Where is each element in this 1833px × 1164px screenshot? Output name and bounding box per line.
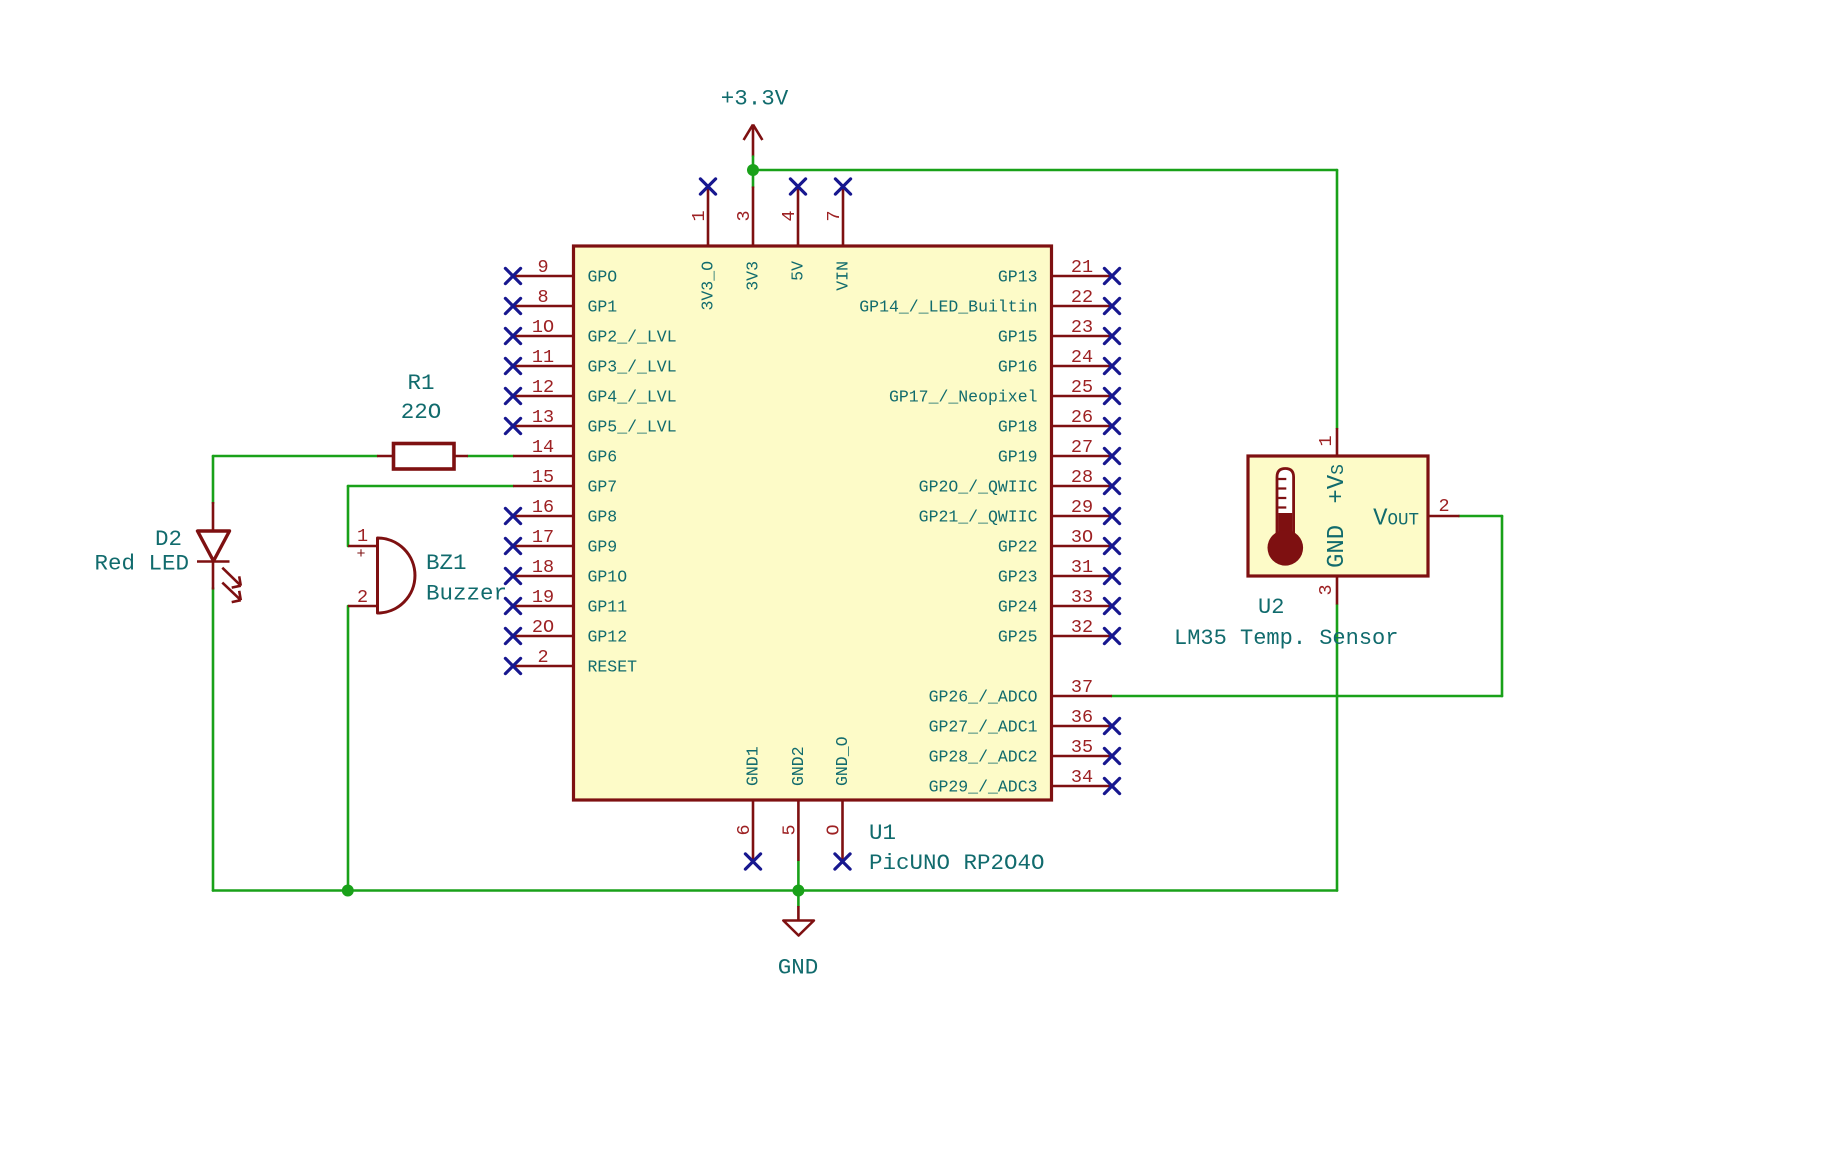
junction ground node: [792, 885, 804, 897]
svg-text:13: 13: [532, 407, 554, 428]
svg-text:GP29_/_ADC3: GP29_/_ADC3: [929, 778, 1038, 797]
svg-text:GP9: GP9: [588, 538, 618, 557]
svg-text:31: 31: [1071, 557, 1093, 578]
wire buzzer pin1 riser: [347, 486, 350, 546]
U1 pin 35 GP28_/_ADC2: [929, 737, 1120, 767]
U1 pin 3 3V3: [734, 187, 763, 291]
wire +3.3V horizontal to U2: [753, 169, 1337, 172]
svg-text:18: 18: [532, 557, 554, 578]
svg-text:8: 8: [537, 287, 548, 308]
svg-text:3V3_O: 3V3_O: [699, 261, 718, 311]
svg-text:1: 1: [1316, 435, 1337, 446]
svg-text:9: 9: [537, 257, 548, 278]
svg-text:5V: 5V: [789, 261, 808, 281]
svg-text:GP1O: GP1O: [588, 568, 628, 587]
U1 pin 2 RESET: [505, 647, 637, 677]
svg-text:25: 25: [1071, 377, 1093, 398]
svg-text:RESET: RESET: [588, 658, 638, 677]
svg-text:7: 7: [824, 210, 845, 221]
svg-text:GP11: GP11: [588, 598, 628, 617]
svg-text:PicUNO RP2O4O: PicUNO RP2O4O: [869, 850, 1045, 876]
wire GP7 horizontal: [348, 485, 513, 488]
svg-text:5: 5: [779, 824, 800, 835]
wire LED cathode to bottom bus: [212, 588, 215, 891]
svg-text:33: 33: [1071, 587, 1093, 608]
U1 pin 15 GP7: [513, 467, 617, 497]
U1 pin 10 GP2_/_LVL: [505, 317, 676, 347]
svg-text:GP2_/_LVL: GP2_/_LVL: [588, 328, 677, 347]
U1 pin 22 GP14_/_LED_Builtin: [859, 287, 1119, 317]
svg-text:11: 11: [532, 347, 554, 368]
U1 pin 33 GP24: [998, 587, 1120, 617]
wire GND2 stub: [797, 861, 800, 906]
svg-text:R1: R1: [407, 370, 434, 396]
svg-text:2: 2: [1438, 496, 1449, 517]
svg-text:3O: 3O: [1071, 527, 1093, 548]
svg-text:VIN: VIN: [834, 261, 853, 291]
U1 pin 13 GP5_/_LVL: [505, 407, 676, 437]
ground: [778, 906, 819, 981]
IC U2 LM35 Temp. Sensor body: [1248, 456, 1428, 576]
svg-text:15: 15: [532, 467, 554, 488]
U1 pin 36 GP27_/_ADC1: [929, 707, 1120, 737]
U1 pin 26 GP18: [998, 407, 1120, 437]
svg-text:GP18: GP18: [998, 418, 1038, 437]
svg-text:GP13: GP13: [998, 268, 1038, 287]
svg-text:23: 23: [1071, 317, 1093, 338]
svg-text:16: 16: [532, 497, 554, 518]
svg-text:GND1: GND1: [744, 746, 763, 786]
wire to U2 Vout: [1459, 515, 1502, 518]
svg-text:U2: U2: [1258, 595, 1284, 620]
svg-text:GPO: GPO: [588, 268, 618, 287]
svg-text:U1: U1: [869, 820, 896, 846]
power symbol +3.3V: [721, 86, 789, 157]
svg-text:GP21_/_QWIIC: GP21_/_QWIIC: [919, 508, 1038, 527]
svg-text:22O: 22O: [401, 399, 442, 425]
svg-text:GND: GND: [778, 955, 819, 981]
svg-text:14: 14: [532, 437, 554, 458]
U2 pin 1 +Vs: [1316, 428, 1351, 504]
U1 pin 28 GP20_/_QWIIC: [919, 467, 1120, 497]
U1 pin 9 GP0: [505, 257, 617, 287]
svg-text:GP12: GP12: [588, 628, 628, 647]
wire +3.3V stem to pin 3V3: [752, 157, 755, 188]
svg-text:6: 6: [734, 824, 755, 835]
U1 pin 12 GP4_/_LVL: [505, 377, 676, 407]
svg-text:GP22: GP22: [998, 538, 1038, 557]
svg-text:17: 17: [532, 527, 554, 548]
svg-text:GP19: GP19: [998, 448, 1038, 467]
svg-text:GP15: GP15: [998, 328, 1038, 347]
U1 reference and value labels: [869, 820, 1045, 876]
U1 pin 19 GP11: [505, 587, 627, 617]
U1 pin 23 GP15: [998, 317, 1120, 347]
wire R1 to LED column: [213, 455, 377, 458]
svg-text:GND_O: GND_O: [833, 736, 852, 786]
wire LED anode drop: [212, 456, 215, 503]
wire ADC vertical riser: [1501, 516, 1504, 696]
svg-text:+VS: +VS: [1324, 464, 1351, 504]
svg-text:3: 3: [734, 210, 755, 221]
svg-text:D2: D2: [155, 526, 182, 552]
svg-text:GP8: GP8: [588, 508, 618, 527]
svg-text:26: 26: [1071, 407, 1093, 428]
U1 pin 18 GP10: [505, 557, 627, 587]
U1 pin 17 GP9: [505, 527, 617, 557]
svg-text:GP27_/_ADC1: GP27_/_ADC1: [929, 718, 1038, 737]
IC U1 PicUNO RP2040 body: [574, 246, 1052, 800]
svg-text:GP2O_/_QWIIC: GP2O_/_QWIIC: [919, 478, 1038, 497]
junction +3.3V node: [747, 164, 759, 176]
svg-text:GP14_/_LED_Builtin: GP14_/_LED_Builtin: [859, 298, 1037, 317]
svg-text:BZ1: BZ1: [426, 550, 467, 576]
svg-text:Red LED: Red LED: [94, 551, 189, 577]
U1 pin 30 GP22: [998, 527, 1120, 557]
svg-text:GP24: GP24: [998, 598, 1038, 617]
U1 pin 0 GND_O: [824, 736, 853, 869]
svg-text:+3.3V: +3.3V: [721, 86, 789, 112]
svg-text:36: 36: [1071, 707, 1093, 728]
svg-text:GND: GND: [1324, 525, 1351, 568]
wire down to U2 +Vs pin: [1336, 170, 1339, 428]
svg-text:GP4_/_LVL: GP4_/_LVL: [588, 388, 677, 407]
U2 pin 2 Vout: [1373, 496, 1459, 533]
svg-text:Buzzer: Buzzer: [426, 581, 507, 607]
wire GP6 to R1: [468, 455, 513, 458]
wire buzzer pin2 drop: [347, 606, 350, 891]
U1 pin 24 GP16: [998, 347, 1120, 377]
svg-text:22: 22: [1071, 287, 1093, 308]
svg-text:1O: 1O: [532, 317, 554, 338]
U1 pin 11 GP3_/_LVL: [505, 347, 676, 377]
U2 reference and value labels: [1174, 595, 1398, 651]
svg-text:VOUT: VOUT: [1373, 506, 1419, 533]
svg-text:GP26_/_ADCO: GP26_/_ADCO: [929, 688, 1038, 707]
LED D2 Red LED: [94, 502, 240, 602]
U1 pin 8 GP1: [505, 287, 617, 317]
svg-text:GND2: GND2: [789, 746, 808, 786]
U1 pin 4 5V: [779, 179, 808, 281]
U1 pin 34 GP29_/_ADC3: [929, 767, 1120, 797]
svg-text:GP17_/_Neopixel: GP17_/_Neopixel: [889, 388, 1038, 407]
thermometer icon: [1268, 469, 1304, 566]
svg-text:GP3_/_LVL: GP3_/_LVL: [588, 358, 677, 377]
U1 pin 31 GP23: [998, 557, 1120, 587]
svg-text:4: 4: [779, 210, 800, 221]
svg-text:1: 1: [689, 210, 710, 221]
U1 pin 25 GP17_/_Neopixel: [889, 377, 1120, 407]
U1 pin 21 GP13: [998, 257, 1120, 287]
U1 pin 1 3V3_O: [689, 179, 718, 311]
svg-text:2: 2: [537, 647, 548, 668]
junction buzzer bottom node: [342, 885, 354, 897]
svg-text:GP23: GP23: [998, 568, 1038, 587]
svg-text:35: 35: [1071, 737, 1093, 758]
svg-text:3V3: 3V3: [744, 261, 763, 291]
U1 pin 29 GP21_/_QWIIC: [919, 497, 1120, 527]
svg-text:32: 32: [1071, 617, 1093, 638]
svg-text:12: 12: [532, 377, 554, 398]
svg-text:19: 19: [532, 587, 554, 608]
svg-text:37: 37: [1071, 677, 1093, 698]
wire bottom ground bus: [213, 889, 1337, 892]
buzzer BZ1: [348, 526, 507, 613]
svg-text:GP16: GP16: [998, 358, 1038, 377]
svg-text:GP28_/_ADC2: GP28_/_ADC2: [929, 748, 1038, 767]
svg-text:GP6: GP6: [588, 448, 618, 467]
svg-text:28: 28: [1071, 467, 1093, 488]
U1 pin 14 GP6: [513, 437, 617, 467]
svg-text:O: O: [824, 824, 845, 835]
svg-text:GP25: GP25: [998, 628, 1038, 647]
U1 pin 7 VIN: [824, 179, 853, 291]
svg-text:29: 29: [1071, 497, 1093, 518]
svg-text:27: 27: [1071, 437, 1093, 458]
U1 pin 32 GP25: [998, 617, 1120, 647]
resistor R1 220: [377, 370, 468, 469]
svg-text:24: 24: [1071, 347, 1093, 368]
svg-text:2: 2: [357, 587, 368, 608]
U1 pin 37 GP26_/_ADC0: [929, 677, 1112, 707]
svg-text:GP5_/_LVL: GP5_/_LVL: [588, 418, 677, 437]
svg-text:3: 3: [1316, 584, 1337, 595]
svg-text:GP1: GP1: [588, 298, 618, 317]
svg-text:GP7: GP7: [588, 478, 618, 497]
U2 pin 3 GND: [1316, 525, 1351, 605]
svg-text:1: 1: [357, 526, 368, 547]
svg-text:+: +: [356, 546, 365, 563]
svg-text:LM35 Temp. Sensor: LM35 Temp. Sensor: [1174, 626, 1398, 651]
U1 pin 16 GP8: [505, 497, 617, 527]
svg-text:21: 21: [1071, 257, 1093, 278]
U1 pin 6 GND1: [734, 746, 763, 869]
wire U2 GND drop: [1336, 605, 1339, 891]
U1 pin 27 GP19: [998, 437, 1120, 467]
svg-text:34: 34: [1071, 767, 1093, 788]
U1 pin 20 GP12: [505, 617, 627, 647]
wire GP26_ADC0 horizontal: [1112, 695, 1502, 698]
svg-text:2O: 2O: [532, 617, 554, 638]
U1 pin 5 GND2: [779, 746, 808, 861]
